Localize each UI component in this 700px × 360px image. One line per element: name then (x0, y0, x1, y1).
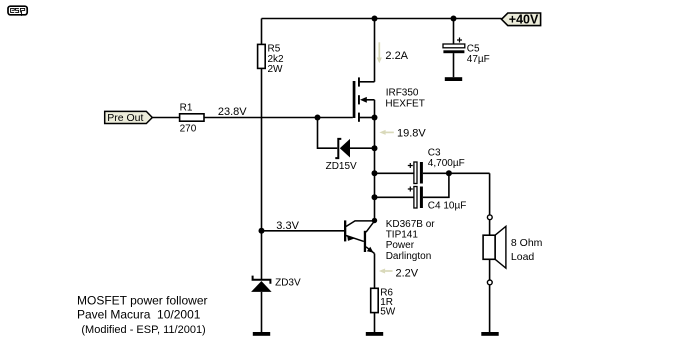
node C4 tap (372, 194, 378, 200)
svg-text:MOSFET power follower: MOSFET power follower (77, 293, 207, 307)
svg-text:23.8V: 23.8V (218, 106, 247, 118)
speaker 8 Ohm Load (483, 226, 543, 268)
annotation 19.8V arrow (379, 128, 426, 140)
ground ZD3V (253, 332, 270, 336)
svg-text:IRF350: IRF350 (386, 87, 419, 98)
capacitor C4 (375, 173, 467, 211)
svg-text:Darlington: Darlington (386, 251, 432, 262)
wire R1 to gate (204, 117, 353, 119)
node bias tap 3.3V (259, 228, 265, 234)
svg-text:ZD3V: ZD3V (275, 278, 301, 289)
node C3 tap (372, 170, 378, 176)
node C5 branch on rail (451, 16, 457, 22)
wire emitter to R6 (374, 254, 376, 289)
ground speaker (481, 332, 498, 336)
wire ZD3V to ground (261, 292, 263, 332)
node collector junction (372, 218, 377, 223)
capacitor C5 (443, 19, 490, 78)
svg-text:Pre Out: Pre Out (107, 112, 143, 124)
zener diode ZD15V (326, 139, 375, 172)
wire R6 to ground (374, 313, 376, 332)
svg-text:3.3V: 3.3V (276, 220, 299, 232)
annotation 2.2A current arrow (377, 42, 409, 63)
svg-text:270: 270 (180, 123, 197, 134)
svg-text:5W: 5W (380, 307, 396, 318)
wire top +40V rail (262, 18, 502, 20)
node C3/C4 output junction (446, 170, 452, 176)
wire source down chain (374, 100, 376, 221)
wire R5 top (261, 19, 263, 45)
transistor Q2 darlington (344, 219, 435, 262)
wire terminal to ground (489, 285, 491, 332)
svg-text:8 Ohm: 8 Ohm (511, 237, 543, 249)
wire speaker to terminal (489, 259, 491, 280)
svg-text:C4 10µF: C4 10µF (428, 201, 467, 212)
ground under C5 (445, 77, 462, 81)
wire drain (374, 19, 376, 82)
terminal top speaker (487, 215, 492, 220)
node drain branch on rail (372, 16, 378, 22)
resistor R5 (258, 44, 284, 75)
node source/body (372, 115, 378, 121)
svg-text:19.8V: 19.8V (397, 128, 426, 140)
wire output to speaker (489, 173, 491, 215)
svg-text:R1: R1 (180, 102, 193, 113)
wire R5 bottom to ZD3V (261, 68, 263, 279)
title text block (77, 293, 207, 336)
wire terminal to speaker (489, 220, 491, 236)
svg-text:C5: C5 (467, 43, 480, 54)
ground R6 (366, 332, 383, 336)
zener diode ZD3V (251, 276, 301, 292)
svg-text:TIP141: TIP141 (386, 230, 419, 241)
resistor R6 (371, 287, 396, 317)
svg-text:4,700µF: 4,700µF (428, 158, 465, 169)
svg-text:2.2A: 2.2A (385, 50, 408, 62)
svg-text:2.2V: 2.2V (396, 267, 419, 279)
transistor Q1 IRF350 mosfet (353, 77, 425, 121)
terminal bottom speaker (487, 280, 492, 285)
wire base (262, 230, 345, 232)
tag +40V (502, 13, 541, 27)
svg-text:HEXFET: HEXFET (385, 98, 424, 109)
ESP logo (8, 6, 27, 16)
svg-text:Pavel Macura 10/2001: Pavel Macura 10/2001 (77, 308, 201, 322)
wire gate node down to ZD15V (318, 118, 338, 149)
node gate / ZD15V junction (315, 115, 321, 121)
svg-text:+40V: +40V (509, 13, 539, 27)
node ZD15V at source line (372, 145, 378, 151)
svg-text:47µF: 47µF (467, 54, 490, 65)
svg-text:KD367B or: KD367B or (386, 219, 436, 230)
wire Pre Out to R1 (152, 117, 179, 119)
svg-text:Load: Load (511, 251, 535, 263)
svg-text:Power: Power (386, 240, 415, 251)
svg-text:ZD15V: ZD15V (326, 161, 357, 172)
annotation 2.2V arrow (379, 267, 419, 279)
capacitor C3 (375, 148, 490, 184)
resistor R1 (180, 102, 204, 134)
tag Pre Out (105, 111, 153, 124)
svg-text:(Modified - ESP, 11/2001): (Modified - ESP, 11/2001) (81, 324, 205, 336)
svg-text:2W: 2W (268, 64, 284, 75)
